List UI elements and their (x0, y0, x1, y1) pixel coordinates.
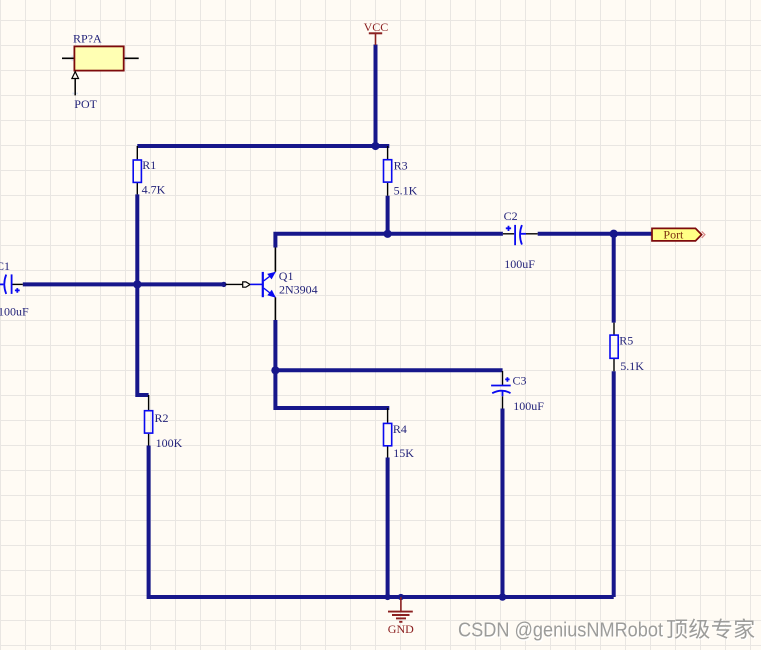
potentiometer RP?A pin-end markers (72, 56, 127, 95)
wire emitter down with corner to R4 (275, 320, 389, 408)
svg-text:C1: C1 (0, 259, 10, 273)
transistor Q1 symbol (250, 283, 262, 285)
wire R5 bottom to bus end (612, 371, 616, 597)
node base/R1-R2 junction (133, 280, 141, 288)
watermark CSDN text (white emboss layer) (459, 620, 755, 643)
svg-text:RP?A: RP?A (73, 32, 102, 46)
svg-text:R3: R3 (394, 159, 408, 173)
potentiometer RP?A wiper arrow (74, 79, 76, 96)
wire top rail R1 to R3 (137, 144, 389, 148)
wire R4 bottom to bus (386, 458, 390, 598)
potentiometer RP?A body (74, 46, 123, 70)
wire R1 bottom down to jog into R2 (137, 194, 148, 395)
node VCC/top-rail junction (371, 142, 379, 150)
potentiometer RP?A pins (62, 57, 139, 59)
node emitter/C3 junction (271, 366, 279, 374)
resistor R2 pins (148, 395, 150, 446)
svg-text:2N3904: 2N3904 (279, 283, 318, 297)
resistor R1 body (133, 160, 141, 182)
svg-text:C3: C3 (513, 374, 527, 388)
node R3/collector-rail junction (384, 230, 392, 238)
port chevron (702, 231, 705, 238)
wire C1 to base branch (23, 282, 224, 286)
capacitor C1 plates (0, 274, 20, 294)
wire collector rail to C2 (275, 234, 503, 248)
power VCC (369, 33, 382, 45)
capacitor C3 plates (491, 377, 511, 396)
wire R3 bottom to collector rail (386, 196, 390, 234)
svg-text:R5: R5 (619, 334, 633, 348)
svg-text:POT: POT (74, 97, 97, 111)
collector arrow (267, 272, 276, 280)
svg-text:Port: Port (663, 227, 684, 241)
node GND/bus junction (398, 594, 404, 600)
svg-text:VCC: VCC (364, 20, 389, 34)
svg-text:R1: R1 (142, 158, 156, 172)
capacitor C2 plates (506, 225, 526, 245)
watermark CSDN text (grey layer) (458, 618, 754, 641)
wire emitter node to C3 top (275, 368, 502, 372)
CJK glyph placeholders replaced below (667, 619, 687, 638)
capacitor C3 pins (502, 371, 504, 409)
wire port node down to R5 (612, 234, 616, 323)
wire R2 bottom to ground bus, bus to R5 drop (149, 446, 614, 598)
transistor Q1 base pin wire (226, 283, 243, 285)
pin arrow on base (243, 282, 250, 287)
capacitor C2 pins (503, 233, 538, 235)
transistor Q1 collector/emitter pins (274, 248, 276, 321)
resistor R4 body (384, 423, 392, 445)
svg-text:15K: 15K (393, 446, 414, 460)
node port/R5 junction (610, 230, 618, 238)
resistor R3 body (384, 160, 392, 182)
resistor R5 body (610, 335, 618, 358)
svg-text:100uF: 100uF (504, 257, 535, 271)
resistor R3 pins (387, 146, 389, 196)
svg-text:5.1K: 5.1K (620, 359, 644, 373)
svg-text:100K: 100K (156, 436, 183, 450)
wire C3 bottom to bus (501, 409, 505, 598)
ground GND (388, 597, 413, 622)
node R4/bus junction (385, 594, 391, 600)
resistor R1 pins (136, 146, 138, 194)
wire VCC stem to top rail (374, 45, 378, 147)
svg-text:Q1: Q1 (279, 269, 294, 283)
resistor R4 pins (387, 408, 389, 458)
svg-text:CSDN @geniusNMRobot: CSDN @geniusNMRobot (458, 620, 663, 642)
svg-text:100uF: 100uF (513, 399, 544, 413)
svg-text:R2: R2 (155, 411, 169, 425)
emitter arrow (267, 290, 276, 298)
svg-text:4.7K: 4.7K (142, 183, 166, 197)
capacitor C1 pin (12, 283, 23, 285)
port Port (652, 228, 702, 241)
svg-text:100uF: 100uF (0, 304, 29, 318)
resistor R2 body (145, 411, 153, 433)
svg-text:C2: C2 (504, 209, 518, 223)
resistor R5 pins (613, 323, 615, 372)
svg-text:R4: R4 (393, 422, 407, 436)
node C3/bus junction (499, 593, 507, 601)
wire C2 to port node (538, 232, 655, 236)
svg-text:GND: GND (388, 622, 414, 636)
svg-text:5.1K: 5.1K (394, 184, 418, 198)
